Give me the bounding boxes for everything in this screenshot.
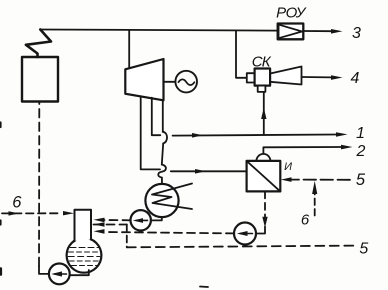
svg-text:6: 6: [301, 211, 310, 228]
arrow into evaporator: [281, 177, 292, 182]
valve SK bottom stub: [258, 86, 266, 92]
reducing unit ROU box: [278, 24, 304, 40]
wire line 3: [303, 30, 331, 32]
wire feed pump outlet: [39, 266, 49, 274]
deaerator tank: [67, 238, 102, 273]
svg-text:2: 2: [356, 143, 366, 160]
wire SK riser: [263, 92, 265, 135]
arrow into deaerator port 1: [94, 218, 105, 223]
wire jump over line 1: [163, 132, 167, 144]
arrow into deaerator port 2: [94, 222, 105, 227]
svg-text:1: 1: [356, 125, 365, 142]
pump P2 (condensate): [131, 210, 151, 230]
arrow up to SK: [261, 108, 266, 119]
arrow down to pump: [262, 217, 267, 228]
arrow stream 6 up: [312, 181, 317, 194]
wire exhaust to condenser: [161, 178, 163, 185]
wire condensate pump1 to deaerator: [105, 219, 131, 221]
wire extraction to evaporator: [141, 97, 160, 170]
wire makeup water 5 bottom: [94, 224, 127, 226]
wire condenser to pump P2: [151, 217, 162, 220]
boiler: [22, 57, 58, 102]
arrow to label 2: [341, 145, 353, 150]
deaerator water hatching: [68, 248, 100, 266]
generator G: [175, 71, 197, 93]
wire evaporator condensate down: [264, 191, 266, 216]
wire feedwater 5 to evaporator: [291, 179, 350, 181]
arrow to label 4: [331, 75, 343, 80]
wire extraction line 1: [152, 98, 161, 136]
arrow stream 6 left start: [9, 211, 20, 215]
svg-text:СК: СК: [252, 54, 272, 71]
wire superheater zigzag: [26, 30, 51, 58]
wire turbine exhaust upper: [162, 100, 164, 132]
deaerator column: [75, 210, 92, 241]
svg-text:5: 5: [356, 171, 366, 189]
evaporator dome: [256, 154, 270, 161]
pump P1 (feed pump): [49, 264, 70, 285]
wire turbine inlet: [128, 30, 130, 68]
evaporator I box: [247, 161, 281, 192]
svg-text:И: И: [284, 161, 292, 173]
wire tank outlet to feed pump: [71, 270, 89, 275]
svg-text:5: 5: [359, 241, 368, 258]
svg-text:4: 4: [351, 70, 360, 87]
wire pump P3 to deaerator: [105, 232, 235, 233]
arrow on evaporator line: [195, 169, 206, 174]
scan speck left mid: [0, 123, 2, 128]
wire line 2: [263, 147, 341, 154]
valve SK body: [255, 69, 271, 86]
condenser K: [145, 184, 178, 217]
wire generator shaft: [164, 81, 176, 83]
condenser coil and cooling water: [152, 184, 192, 210]
scan speck left low-mid: [0, 221, 2, 225]
wire main steam line: [40, 30, 277, 31]
valve SK diffuser cone: [270, 67, 301, 85]
pump P3 (evaporator condensate): [234, 223, 256, 245]
arrow into deaerator port 3: [94, 229, 105, 234]
valve SK flange: [247, 73, 255, 82]
wire steam branch to SK: [236, 31, 247, 78]
arrow to label 1: [336, 132, 348, 137]
arrow to label 3: [331, 29, 343, 34]
wire feedwater riser to boiler: [38, 103, 40, 266]
wire line 4: [302, 76, 332, 78]
arrow stream 6 into column: [63, 211, 74, 215]
wire exhaust middle: [162, 143, 163, 164]
arrow mid line 1: [192, 133, 203, 138]
wire stream 6 left: [2, 212, 60, 214]
scan speck left bottom: [0, 269, 2, 275]
scan speck bottom: [200, 286, 208, 289]
wire jump over evaporator line: [158, 165, 166, 178]
svg-text:РОУ: РОУ: [276, 5, 307, 22]
turbine T: [125, 59, 163, 100]
svg-text:3: 3: [352, 25, 361, 42]
svg-text:6: 6: [12, 194, 22, 212]
wire stream 6 riser: [314, 193, 316, 216]
